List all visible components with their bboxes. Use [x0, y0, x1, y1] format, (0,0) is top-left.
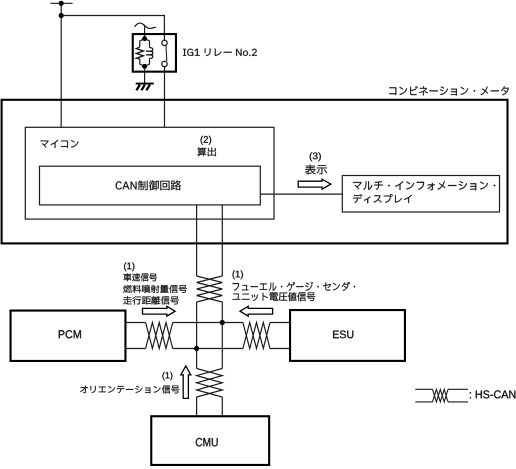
signal arrow (3) display	[298, 179, 331, 189]
wire: horizontal CAN-H PCM to ESU	[127, 322, 290, 324]
inductor arcs in coil	[145, 39, 150, 67]
label combination meter	[389, 86, 508, 95]
label (2)	[201, 136, 212, 145]
label PCM	[59, 330, 81, 338]
label CMU	[196, 438, 218, 446]
label (1) orientation group	[162, 372, 172, 380]
label HS-CAN legend text	[470, 390, 516, 398]
wire: coil to ground	[144, 69, 146, 84]
ESU box	[290, 310, 405, 361]
wire: branch rail to relay	[61, 15, 164, 17]
power rail bar	[51, 2, 72, 4]
twisted pair symbol (upper vertical)	[197, 276, 223, 302]
wire: drop to relay switch	[163, 16, 165, 41]
label microcomputer	[41, 140, 79, 148]
twisted pair symbol (right horizontal)	[243, 323, 270, 349]
label orientation signal	[80, 385, 179, 393]
label (3) display	[305, 165, 327, 175]
relay K1 box IG1 relay No.2	[133, 34, 176, 72]
wire: CAN-L vertical mid	[221, 302, 223, 369]
twisted pair symbol (left horizontal)	[146, 323, 173, 349]
signal arrow (1) CMU up	[181, 366, 191, 398]
signal arrow (1) PCM right	[143, 306, 176, 316]
CAN control circuit box U1	[40, 166, 261, 205]
ground symbol	[136, 84, 154, 91]
node: coil bottom terminal	[142, 64, 147, 69]
wire: horizontal CAN-L	[127, 348, 290, 350]
label fuel injection amount signal	[123, 285, 187, 293]
resistor zigzag in coil	[136, 47, 143, 59]
multi information display box	[342, 176, 499, 213]
label (3)	[310, 152, 321, 161]
label multi-information line2	[353, 194, 412, 203]
relay switch contacts	[162, 40, 167, 45]
node: rail junction	[59, 13, 64, 18]
relay coil branch (resistor + inductor in parallel)	[140, 39, 145, 67]
signal arrow (1) ESU left	[240, 306, 273, 316]
label IG1 relay No.2	[183, 49, 257, 56]
label (1) vehicle speed group	[124, 262, 134, 271]
node: CAN-H junction	[220, 320, 225, 325]
node: coil top terminal	[142, 36, 147, 41]
twisted pair symbol (lower vertical)	[197, 369, 223, 398]
wire: abbreviated feed (wavy)	[135, 23, 155, 28]
label CAN control circuit	[116, 180, 181, 190]
wire: main vertical from power to meter box	[60, 3, 62, 127]
combination meter box	[2, 100, 508, 244]
wire: coil stem	[144, 25, 146, 36]
microcomputer box	[25, 127, 274, 219]
label (1) fuel gauge group	[233, 270, 243, 279]
wire: CAN-H vertical upper	[196, 205, 198, 276]
wire: switch output down into meter	[164, 67, 166, 127]
label multi-information line1	[353, 181, 495, 190]
label odometer signal	[123, 296, 179, 304]
PCM box	[11, 311, 126, 361]
node: CAN-L junction	[194, 346, 199, 351]
inductor core dashes	[146, 51, 153, 55]
label fuel gauge sender line2	[233, 292, 316, 301]
wire: CAN-L vertical upper	[221, 205, 223, 276]
relay switch blade	[165, 46, 168, 61]
wire: CAN-H vertical mid	[196, 302, 198, 369]
label (2) calculation	[197, 147, 216, 156]
label fuel gauge sender line1	[233, 282, 356, 291]
legend twisted pair symbol	[415, 388, 468, 390]
label ESU	[333, 330, 353, 338]
label vehicle speed signal	[124, 273, 157, 281]
wire: verticals into CMU	[196, 397, 198, 415]
node: power tap junction	[59, 1, 64, 6]
wire: CAN circuit to display	[260, 193, 342, 195]
CMU box	[151, 416, 269, 465]
